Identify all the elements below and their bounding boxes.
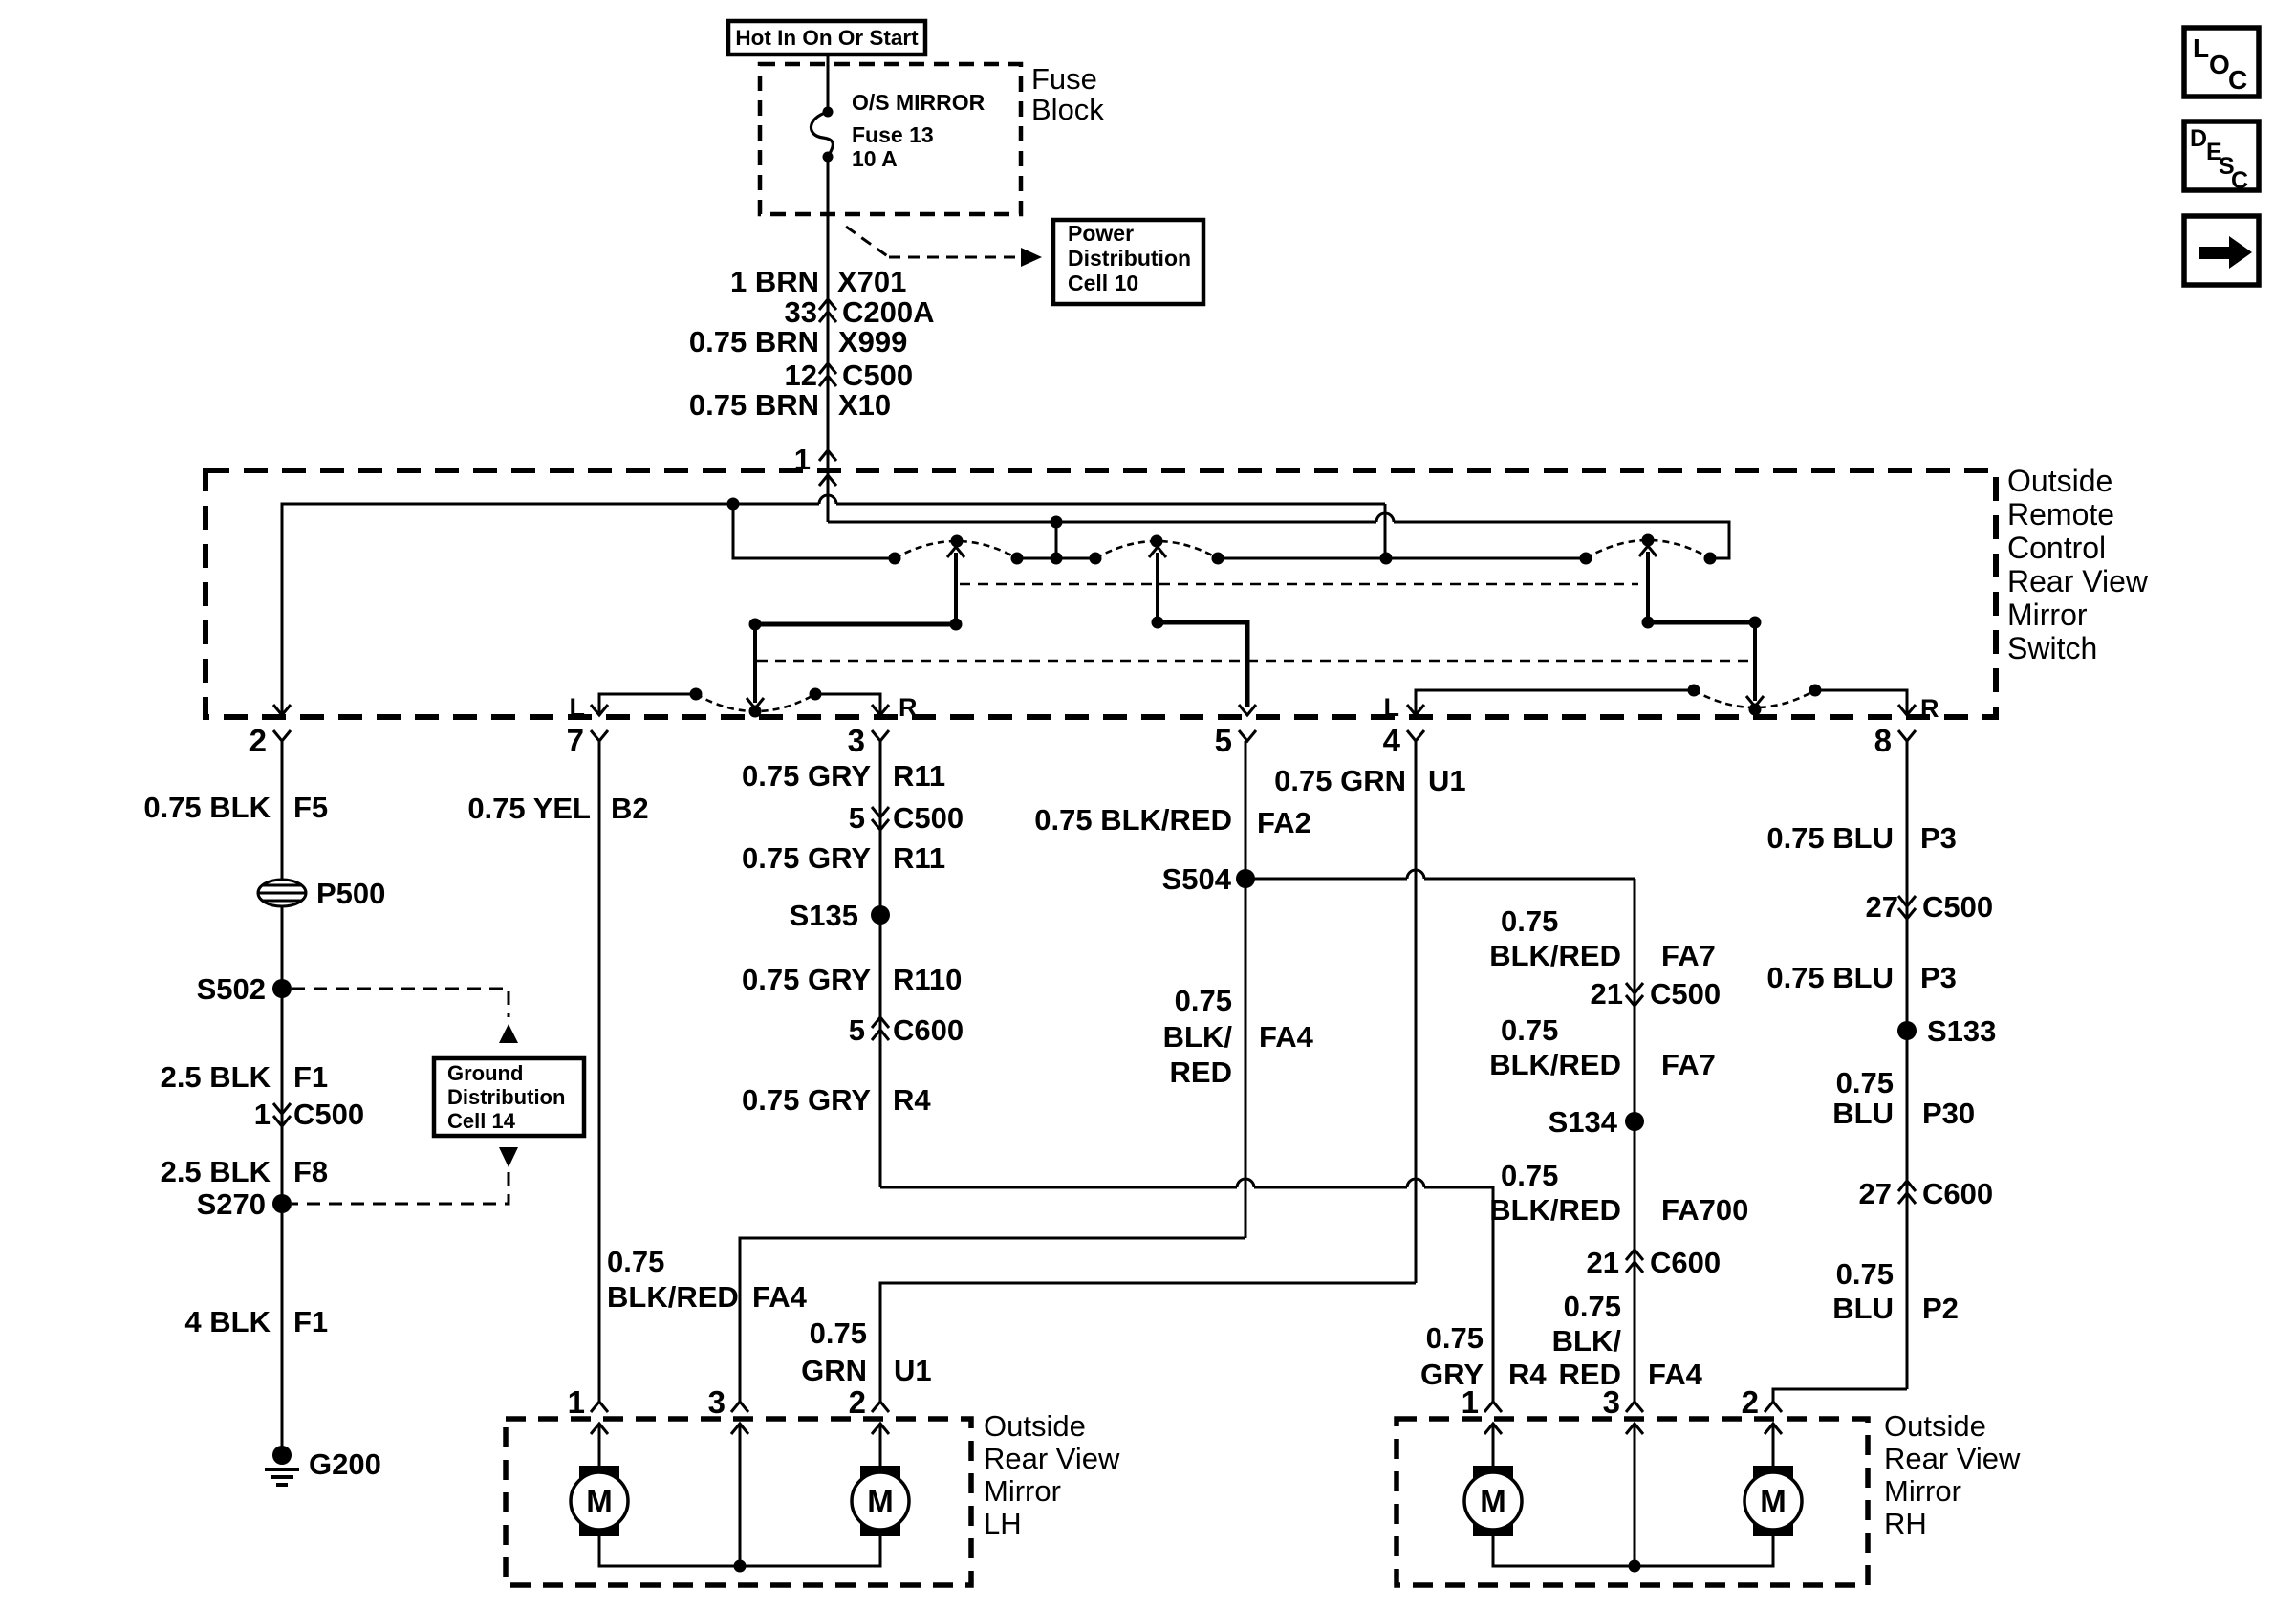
wire label 0.75 BLK/RED FA4 at LH mirror — [607, 1245, 808, 1314]
svg-text:5: 5 — [1215, 723, 1232, 758]
svg-text:R: R — [1920, 694, 1939, 723]
svg-text:BLK/RED: BLK/RED — [607, 1280, 739, 1314]
svg-text:BLK/RED: BLK/RED — [1489, 939, 1621, 972]
svg-text:Rear View: Rear View — [1884, 1442, 2021, 1475]
switch pin 4 connector — [1383, 723, 1424, 758]
RH mirror dashed box — [1397, 1419, 1868, 1585]
svg-text:P2: P2 — [1922, 1292, 1959, 1325]
svg-text:RH: RH — [1884, 1507, 1927, 1540]
switch pin 1 connector at top edge — [794, 443, 836, 486]
svg-text:3: 3 — [1603, 1384, 1620, 1420]
arrow into pin 8 — [1898, 705, 1916, 715]
svg-text:C600: C600 — [893, 1013, 964, 1047]
svg-text:L: L — [1384, 693, 1400, 722]
svg-text:C: C — [2231, 167, 2248, 194]
svg-text:R4: R4 — [1508, 1358, 1547, 1391]
svg-text:0.75: 0.75 — [1836, 1066, 1894, 1099]
wire label 0.75 BLU P3 — [1766, 821, 1957, 855]
svg-text:C500: C500 — [893, 801, 964, 835]
svg-text:0.75 BLK: 0.75 BLK — [143, 791, 271, 824]
svg-text:0.75: 0.75 — [607, 1245, 664, 1278]
connector C500 pin 27 — [1866, 890, 1994, 924]
svg-text:F8: F8 — [293, 1155, 328, 1188]
switch pin 2 connector — [249, 723, 291, 758]
wire label 0.75 BLK/RED FA2 — [1034, 803, 1311, 839]
switch pin 5 connector — [1215, 723, 1256, 758]
svg-text:F5: F5 — [293, 791, 328, 824]
svg-text:BLU: BLU — [1832, 1292, 1894, 1325]
svg-text:C600: C600 — [1650, 1246, 1721, 1279]
svg-text:Fuse 13: Fuse 13 — [852, 122, 934, 147]
svg-text:Remote: Remote — [2007, 497, 2114, 532]
svg-text:BLK/RED: BLK/RED — [1489, 1193, 1621, 1227]
switch pin 7 connector — [567, 723, 608, 758]
wire label 0.75 BLK/RED FA700 — [1489, 1159, 1748, 1227]
contact dot A-right — [1011, 553, 1024, 565]
reference box Ground Distribution Cell 14 — [434, 1058, 584, 1136]
svg-text:Mirror: Mirror — [984, 1474, 1061, 1508]
wire label 0.75 BLU P30 — [1832, 1066, 1975, 1130]
svg-text:0.75 GRY: 0.75 GRY — [742, 841, 871, 875]
label L for pin 7 — [570, 693, 586, 722]
connector P500 — [258, 877, 385, 910]
wiper A arrow — [947, 547, 964, 624]
contact dot A-left — [889, 553, 901, 565]
svg-text:Cell 10: Cell 10 — [1068, 271, 1138, 295]
svg-text:2: 2 — [849, 1384, 866, 1420]
svg-text:5: 5 — [849, 1013, 865, 1047]
svg-text:S504: S504 — [1162, 862, 1232, 896]
svg-text:0.75 BRN: 0.75 BRN — [689, 388, 819, 422]
RH mirror common wire — [1493, 1536, 1773, 1573]
wire label 0.75 GRY R11 — [742, 759, 945, 793]
wire label 2.5 BLK F8 — [161, 1155, 329, 1188]
wire label 0.75 BRN X999 — [689, 325, 908, 359]
svg-text:FA7: FA7 — [1661, 939, 1716, 972]
switch pin 8 connector — [1874, 723, 1916, 758]
svg-text:S133: S133 — [1927, 1014, 1996, 1048]
RH L-R selector curve — [1694, 690, 1815, 716]
svg-text:Switch: Switch — [2007, 631, 2097, 665]
splice S134 — [1549, 1105, 1644, 1139]
LH L-R selector curve — [696, 694, 815, 718]
svg-text:R: R — [899, 693, 918, 722]
svg-text:GRN: GRN — [801, 1354, 867, 1387]
contact dot B-right — [1212, 553, 1224, 565]
svg-text:8: 8 — [1874, 723, 1892, 758]
bus junction vertical to contact row — [727, 498, 1386, 559]
svg-text:1: 1 — [568, 1384, 585, 1420]
svg-text:R11: R11 — [893, 841, 945, 875]
svg-text:C200A: C200A — [842, 295, 935, 329]
svg-text:0.75: 0.75 — [1426, 1321, 1484, 1355]
svg-text:BLK/RED: BLK/RED — [1489, 1048, 1621, 1081]
connector C600 pin 27 — [1859, 1177, 1994, 1210]
svg-text:P3: P3 — [1920, 961, 1957, 994]
svg-text:P30: P30 — [1922, 1097, 1975, 1130]
wire label 0.75 BLK/RED FA4 vertical — [1163, 984, 1314, 1089]
splice S502 — [197, 972, 292, 1006]
LH L-R selector contact L side — [599, 688, 703, 714]
fuse F13 O/S MIRROR 10A — [811, 107, 833, 163]
svg-text:27: 27 — [1866, 890, 1898, 924]
svg-text:C500: C500 — [842, 359, 913, 392]
wire GRY R4 across to RH mirror pin 1 — [880, 1179, 1493, 1402]
svg-text:Mirror: Mirror — [2007, 598, 2088, 632]
svg-text:2: 2 — [1742, 1384, 1759, 1420]
svg-text:0.75: 0.75 — [1175, 984, 1232, 1017]
wiper C drop to LR selector — [1746, 622, 1764, 707]
svg-text:X999: X999 — [838, 325, 907, 359]
svg-text:BLK/: BLK/ — [1552, 1324, 1622, 1358]
connector C600 pin 21 — [1587, 1246, 1722, 1279]
splice S270 — [197, 1187, 292, 1221]
wire label 0.75 GRN U1 — [1274, 764, 1465, 797]
svg-text:4: 4 — [1383, 723, 1401, 758]
svg-text:O: O — [2209, 50, 2230, 79]
svg-text:M: M — [867, 1484, 894, 1519]
RH mirror pin 2 connector — [1742, 1384, 1782, 1434]
svg-text:U1: U1 — [1428, 764, 1466, 797]
svg-text:Fuse: Fuse — [1031, 62, 1097, 96]
label R for pin 8 — [1920, 694, 1939, 723]
svg-text:Distribution: Distribution — [1068, 246, 1191, 271]
svg-text:0.75: 0.75 — [1501, 904, 1558, 938]
LH mirror common wire — [599, 1536, 880, 1573]
svg-text:Cell 14: Cell 14 — [447, 1109, 516, 1133]
svg-text:B2: B2 — [611, 792, 649, 825]
svg-text:R4: R4 — [893, 1083, 931, 1117]
reference box Power Distribution Cell 10 — [1053, 220, 1203, 304]
svg-text:P3: P3 — [1920, 821, 1957, 855]
svg-text:Mirror: Mirror — [1884, 1474, 1961, 1508]
svg-text:P500: P500 — [316, 877, 385, 910]
contact dot C-right — [1704, 553, 1717, 565]
svg-text:0.75 BLU: 0.75 BLU — [1766, 821, 1894, 855]
RH mirror pin 3 wire — [1634, 1424, 1636, 1566]
fuse label O/S MIRROR Fuse 13 10 A — [852, 90, 986, 171]
wire bus1 tap down to left contact — [733, 504, 895, 558]
wire pin 3 down (GRY) — [879, 741, 882, 1187]
svg-text:M: M — [1480, 1484, 1506, 1519]
wire FA4 to LH mirror pin 3 — [740, 1238, 1245, 1402]
RH L-R selector contact R side — [1809, 685, 1908, 714]
svg-text:2.5 BLK: 2.5 BLK — [161, 1060, 271, 1094]
svg-text:Power: Power — [1068, 221, 1134, 246]
svg-text:G200: G200 — [309, 1447, 381, 1481]
svg-text:Distribution: Distribution — [447, 1085, 565, 1109]
label R for pin 3 — [899, 693, 918, 722]
svg-text:0.75: 0.75 — [1564, 1290, 1621, 1323]
RH mirror motor 1 (left) — [1464, 1424, 1522, 1536]
svg-text:Outside: Outside — [1884, 1409, 1986, 1443]
icon box DESC — [2184, 121, 2259, 194]
svg-text:FA2: FA2 — [1257, 806, 1311, 839]
splice S133 — [1897, 1014, 1996, 1048]
LH mirror pin 3 connector — [708, 1384, 748, 1434]
LH mirror pin 3 wire — [739, 1424, 742, 1566]
wire label 0.75 GRY R4 at RH mirror — [1420, 1321, 1547, 1391]
contact link A-right to T — [1017, 553, 1102, 565]
svg-text:LH: LH — [984, 1507, 1022, 1540]
mechanical link dashed line lower — [757, 660, 1749, 663]
LH L-R selector contact R side — [810, 688, 881, 714]
svg-text:X10: X10 — [838, 388, 891, 422]
svg-text:C: C — [2228, 65, 2247, 95]
wire label 0.75 YEL B2 — [467, 792, 648, 825]
svg-text:FA7: FA7 — [1661, 1048, 1716, 1081]
switch pin 3 connector — [848, 723, 889, 758]
LH mirror pin 1 connector — [568, 1384, 608, 1434]
icon box LOC — [2184, 28, 2259, 97]
svg-text:R11: R11 — [893, 759, 945, 793]
splice S504 — [1162, 862, 1255, 896]
svg-text:R110: R110 — [893, 963, 962, 996]
svg-text:1 BRN: 1 BRN — [730, 265, 819, 298]
svg-text:Rear View: Rear View — [2007, 564, 2149, 598]
svg-text:0.75 GRY: 0.75 GRY — [742, 759, 871, 793]
connector C500 pin 5 — [849, 801, 964, 835]
svg-text:33: 33 — [785, 295, 817, 329]
wiper dot A — [951, 535, 964, 548]
wire label 0.75 GRN U1 at LH mirror — [801, 1316, 932, 1387]
mirror switch dashed box — [206, 470, 1996, 717]
wire label 0.75 GRY R11 lower — [742, 841, 945, 875]
wire label 0.75 GRY R110 — [742, 963, 962, 996]
wire label 4 BLK F1 — [184, 1305, 328, 1338]
LH mirror dashed box — [506, 1419, 971, 1585]
svg-text:X701: X701 — [837, 265, 906, 298]
connector C200A pin 33 — [785, 295, 935, 329]
svg-text:Rear View: Rear View — [984, 1442, 1120, 1475]
wire label 0.75 BLK F5 — [143, 791, 328, 824]
svg-text:S502: S502 — [197, 972, 266, 1006]
svg-text:S270: S270 — [197, 1187, 266, 1221]
svg-text:10 A: 10 A — [852, 146, 898, 171]
wiper dot B — [1151, 535, 1163, 548]
wire label 0.75 BRN X10 — [689, 388, 891, 422]
wire FA7 column down to RH mirror pin 3 — [1634, 879, 1636, 1402]
svg-text:0.75 BRN: 0.75 BRN — [689, 325, 819, 359]
wire fuse output down to switch pin 1 — [827, 157, 830, 522]
wire pin 5 down (BLK/RED) — [1245, 741, 1247, 1238]
svg-text:F1: F1 — [293, 1060, 328, 1094]
arrow into pin 4 — [1407, 705, 1424, 715]
wire BLU P2 to RH mirror pin 2 — [1773, 1389, 1907, 1402]
wire pin 2 to G200 — [281, 741, 284, 1453]
svg-text:4 BLK: 4 BLK — [184, 1305, 271, 1338]
svg-text:0.75: 0.75 — [810, 1316, 867, 1350]
svg-text:0.75: 0.75 — [1501, 1013, 1558, 1047]
svg-text:1: 1 — [254, 1098, 271, 1131]
connector C500 pin 1 — [254, 1098, 364, 1131]
icon box arrow — [2184, 216, 2259, 285]
svg-text:Outside: Outside — [984, 1409, 1086, 1443]
svg-text:0.75 GRY: 0.75 GRY — [742, 1083, 871, 1117]
svg-text:Control: Control — [2007, 531, 2106, 565]
wire S504 to FA7 column — [1245, 870, 1635, 879]
svg-text:RED: RED — [1170, 1055, 1232, 1089]
arrow into pin 7 — [591, 705, 608, 715]
LH mirror label Outside Rear View Mirror LH — [984, 1409, 1120, 1540]
svg-text:0.75: 0.75 — [1501, 1159, 1558, 1192]
switch label Outside Remote Control Rear View Mirror Switch — [2007, 464, 2149, 665]
svg-text:M: M — [1760, 1484, 1787, 1519]
wiper C arrow — [1639, 546, 1657, 622]
svg-text:C500: C500 — [1922, 890, 1993, 924]
svg-text:U1: U1 — [894, 1354, 932, 1387]
RH mirror motor 2 (right) — [1744, 1424, 1802, 1536]
svg-text:1: 1 — [794, 443, 811, 476]
svg-text:Ground: Ground — [447, 1061, 523, 1085]
switch contact curve A (LH up/down) — [895, 541, 1017, 558]
svg-text:FA4: FA4 — [752, 1280, 808, 1314]
wiper B arrow — [1149, 547, 1166, 622]
switch contact curve C (RH selector) — [1586, 540, 1710, 558]
svg-text:D: D — [2190, 125, 2207, 152]
connector C500 pin 21 — [1591, 977, 1722, 1011]
RH L-R selector contact L side — [1416, 685, 1700, 714]
svg-text:0.75 GRY: 0.75 GRY — [742, 963, 871, 996]
svg-text:21: 21 — [1587, 1246, 1619, 1279]
wire label 1 BRN X701 — [730, 265, 906, 298]
svg-text:0.75 GRN: 0.75 GRN — [1274, 764, 1406, 797]
wire label 0.75 BLK/RED FA7 lower — [1489, 1013, 1716, 1081]
label Fuse Block — [1031, 62, 1104, 126]
svg-text:3: 3 — [708, 1384, 726, 1420]
wire label 0.75 BLU P3 lower — [1766, 961, 1957, 994]
RH mirror pin 3 connector — [1603, 1384, 1643, 1434]
connector C600 pin 5 — [849, 1013, 964, 1047]
svg-text:7: 7 — [567, 723, 584, 758]
wiper B link to pin 5 — [1152, 617, 1257, 716]
svg-text:L: L — [570, 693, 586, 722]
RH mirror pin 1 connector — [1462, 1384, 1502, 1434]
svg-text:L: L — [2193, 33, 2209, 63]
T link to power bus — [1051, 516, 1063, 559]
power bus wire from pin 1 — [828, 513, 1729, 558]
RH mirror label Outside Rear View Mirror RH — [1884, 1409, 2021, 1540]
wiper dot C — [1642, 534, 1655, 547]
svg-text:C600: C600 — [1922, 1177, 1993, 1210]
connector C500 pin 12 — [785, 359, 914, 392]
wire pin 7 to LH mirror pin 1 — [598, 741, 601, 1402]
svg-text:Hot In On Or Start: Hot In On Or Start — [735, 26, 919, 50]
svg-text:F1: F1 — [293, 1305, 328, 1338]
svg-text:C500: C500 — [293, 1098, 364, 1131]
wiper A link row — [749, 619, 963, 631]
svg-text:0.75: 0.75 — [1836, 1257, 1894, 1291]
svg-text:27: 27 — [1859, 1177, 1892, 1210]
ground bus wire to pin 2 — [273, 495, 1385, 715]
svg-text:5: 5 — [849, 801, 865, 835]
LH mirror pin 2 connector — [849, 1384, 889, 1434]
svg-text:3: 3 — [848, 723, 865, 758]
svg-text:Outside: Outside — [2007, 464, 2112, 498]
LH mirror motor 1 (left) — [571, 1424, 628, 1536]
svg-text:21: 21 — [1591, 977, 1623, 1011]
svg-text:BLK/: BLK/ — [1163, 1020, 1233, 1054]
svg-text:BLU: BLU — [1832, 1097, 1894, 1130]
mechanical link dashed line upper — [960, 583, 1638, 586]
LH mirror motor 2 (right) — [852, 1424, 909, 1536]
wire label 0.75 BLK/RED FA7 — [1489, 904, 1716, 972]
power source box "Hot In On Or Start" — [728, 21, 925, 54]
wire label 0.75 BLK/RED FA4 at RH mirror — [1552, 1290, 1703, 1391]
arrow into pin 3 — [872, 705, 889, 715]
svg-text:FA4: FA4 — [1648, 1358, 1703, 1391]
wire GRN U1 to LH mirror pin 2 — [880, 1283, 1416, 1402]
svg-text:O/S MIRROR: O/S MIRROR — [852, 90, 986, 115]
wire label 2.5 BLK F1 — [161, 1060, 329, 1094]
svg-text:0.75 BLU: 0.75 BLU — [1766, 961, 1894, 994]
fuse block dashed box — [760, 64, 1021, 214]
dashed link S502 to ground distribution — [292, 989, 518, 1043]
wire label 0.75 GRY R4 — [742, 1083, 931, 1117]
wiper A drop to LR selector — [747, 624, 764, 708]
label L for pin 4 — [1384, 693, 1400, 722]
splice S135 — [790, 899, 890, 932]
svg-text:0.75 BLK/RED: 0.75 BLK/RED — [1034, 803, 1232, 837]
ground G200 — [265, 1446, 381, 1485]
switch contact curve B — [1095, 541, 1218, 558]
contact row link B to C — [1218, 553, 1592, 565]
wiper C link row — [1642, 617, 1762, 629]
svg-text:S134: S134 — [1549, 1105, 1618, 1139]
svg-text:12: 12 — [785, 359, 817, 392]
svg-text:1: 1 — [1462, 1384, 1479, 1420]
svg-text:0.75 YEL: 0.75 YEL — [467, 792, 591, 825]
svg-text:2.5 BLK: 2.5 BLK — [161, 1155, 271, 1188]
svg-text:C500: C500 — [1650, 977, 1721, 1011]
wire from Hot In On Or Start into fuse block — [827, 54, 830, 112]
wire pin 4 down (GRN U1) — [1415, 741, 1418, 1283]
svg-text:Block: Block — [1031, 93, 1104, 126]
dashed reference arrow to Power Distribution — [846, 227, 1042, 267]
svg-text:S135: S135 — [790, 899, 858, 932]
svg-text:FA4: FA4 — [1259, 1020, 1314, 1054]
svg-text:M: M — [586, 1484, 613, 1519]
svg-text:2: 2 — [249, 723, 267, 758]
svg-text:FA700: FA700 — [1661, 1193, 1748, 1227]
wire pin 8 down (BLU) — [1906, 741, 1909, 1389]
dashed link ground distribution to S270 — [292, 1147, 518, 1204]
wire label 0.75 BLU P2 — [1832, 1257, 1959, 1325]
